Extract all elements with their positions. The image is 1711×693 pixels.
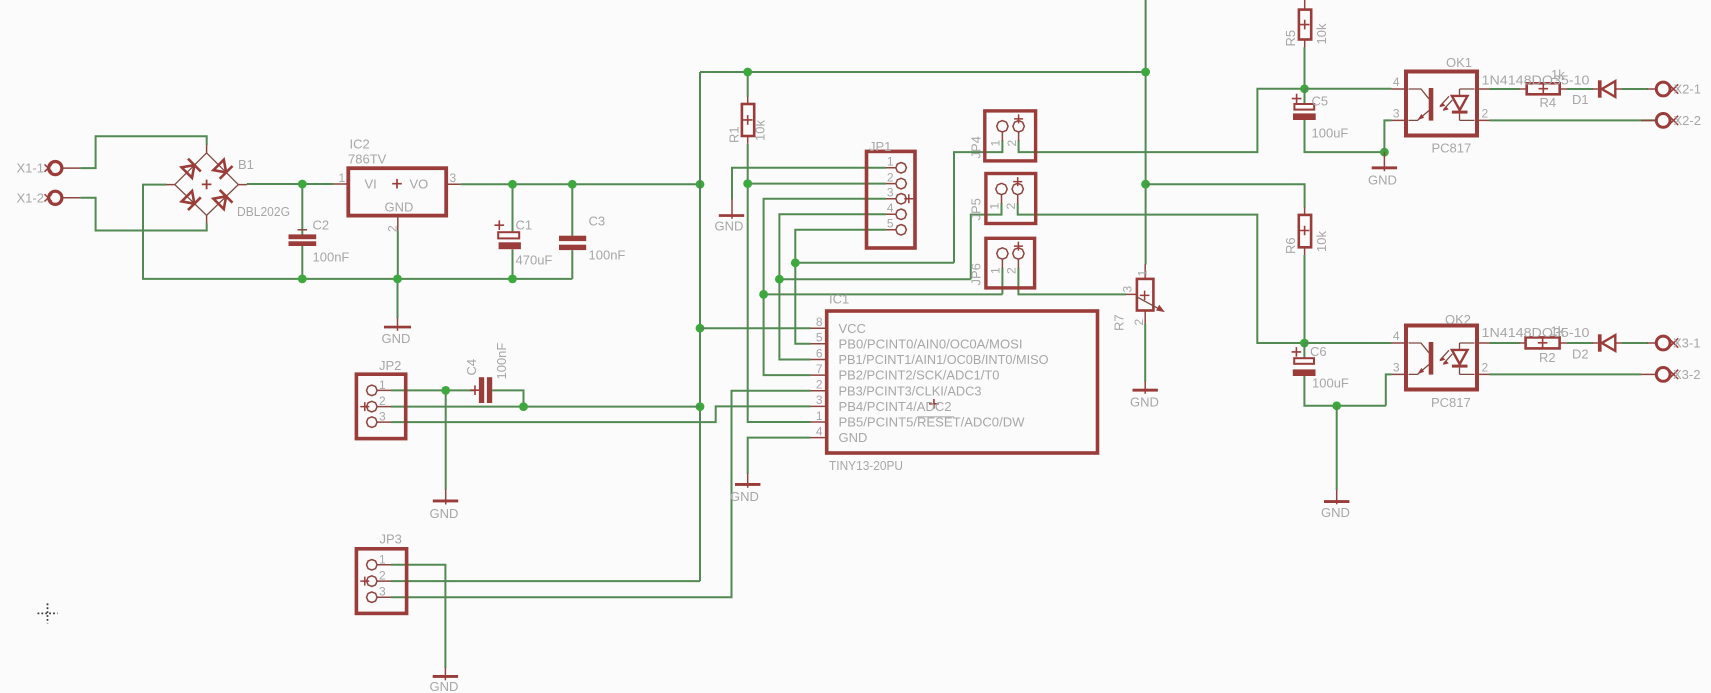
- diode B1 upper-right: [213, 160, 226, 173]
- wire IC2 GND pin down: [397, 230, 399, 279]
- wire GND net up to OK1 pin3: [1384, 120, 1391, 152]
- junction VCC at JP2 pin2: [696, 402, 705, 411]
- svg-text:X3-1: X3-1: [1673, 336, 1700, 351]
- wire JP5 pin2 to OK2 LED net: [1018, 203, 1305, 343]
- svg-text:GND: GND: [730, 489, 759, 504]
- svg-text:100nF: 100nF: [313, 250, 350, 265]
- svg-text:2: 2: [1005, 140, 1019, 147]
- optocoupler OK1: [1392, 72, 1490, 136]
- wire OK1 anode to R4: [1490, 88, 1520, 90]
- junction R6 C6 OK2: [1300, 339, 1309, 348]
- svg-text:PC817: PC817: [1431, 395, 1471, 410]
- wire VCC to R6 top: [1146, 184, 1305, 208]
- svg-text:IC2: IC2: [350, 137, 370, 152]
- ground symbol OK1: [1372, 152, 1397, 171]
- wire C6 bottom to GND net: [1304, 376, 1385, 406]
- svg-text:JP4: JP4: [969, 136, 984, 158]
- svg-text:DBL202G: DBL202G: [237, 204, 290, 219]
- sheet origin cross: [38, 603, 58, 623]
- svg-text:7: 7: [816, 362, 823, 376]
- wire JP1 pin5 to PB0 net: [795, 230, 886, 344]
- junction PB2 net: [759, 290, 768, 299]
- svg-text:1: 1: [1136, 270, 1150, 277]
- svg-text:5: 5: [816, 331, 823, 345]
- overline RESET: [917, 416, 954, 418]
- optocoupler OK2: [1392, 326, 1490, 390]
- wire R7 pin2 to GND: [1144, 324, 1146, 382]
- svg-text:PB0/PCINT0/AIN0/OC0A/MOSI: PB0/PCINT0/AIN0/OC0A/MOSI: [839, 336, 1023, 351]
- svg-text:JP3: JP3: [380, 532, 402, 547]
- junction C6 GND net: [1332, 401, 1341, 410]
- wire IC2 VO rail: [461, 183, 700, 185]
- svg-text:PB1/PCINT1/AIN1/OC0B/INT0/MISO: PB1/PCINT1/AIN1/OC0B/INT0/MISO: [839, 352, 1049, 367]
- svg-text:100nF: 100nF: [589, 248, 626, 263]
- svg-text:GND: GND: [382, 331, 411, 346]
- svg-text:2: 2: [1005, 267, 1019, 274]
- wire JP6 pin1 to PB2 net: [1001, 268, 1003, 295]
- svg-text:1N4148DO35-10: 1N4148DO35-10: [1482, 325, 1590, 340]
- wire JP3 pin3 to IC1 PB3: [391, 391, 811, 598]
- wire C4 right to VCC net: [492, 390, 523, 406]
- svg-text:TINY13-20PU: TINY13-20PU: [829, 458, 903, 473]
- svg-text:100nF: 100nF: [494, 343, 509, 380]
- svg-text:1N4148DO35-10: 1N4148DO35-10: [1482, 73, 1590, 88]
- wire X1-2 to bridge AC2: [80, 198, 206, 231]
- svg-text:4: 4: [1393, 329, 1400, 343]
- wire JP1 pin4 to PB1 net: [779, 214, 886, 359]
- wire PB0 net horizontal run: [795, 262, 954, 264]
- wire R2 to D2: [1567, 342, 1593, 344]
- svg-text:C4: C4: [464, 359, 479, 376]
- wire JP3 pin2 to VCC: [391, 580, 700, 582]
- svg-text:OK1: OK1: [1446, 55, 1472, 70]
- ground symbol R7: [1133, 381, 1158, 394]
- wire JP1 pin3 to PB2 net: [764, 199, 886, 375]
- resistor R5: [1299, 0, 1311, 48]
- svg-text:D2: D2: [1572, 347, 1589, 362]
- junction C1 bottom: [508, 275, 517, 284]
- svg-text:10k: 10k: [1314, 23, 1329, 44]
- svg-text:100uF: 100uF: [1312, 126, 1349, 141]
- svg-text:786TV: 786TV: [348, 152, 387, 167]
- junction PB0 net: [791, 258, 800, 267]
- svg-text:GND: GND: [430, 679, 459, 693]
- svg-text:VI: VI: [365, 177, 377, 192]
- junction VCC to R6 branch: [1141, 180, 1150, 189]
- wire C3 branch bottom: [571, 250, 573, 279]
- svg-text:1: 1: [988, 203, 1002, 210]
- wire R1 top: [747, 72, 749, 97]
- svg-text:GND: GND: [1321, 505, 1350, 520]
- connector X3-2: [1641, 368, 1678, 382]
- svg-text:C5: C5: [1312, 94, 1329, 109]
- capacitor C5: [1292, 89, 1316, 120]
- svg-text:2: 2: [887, 170, 894, 184]
- wire JP1 pin2: [748, 183, 886, 185]
- svg-text:C2: C2: [313, 218, 330, 233]
- ground symbol JP1: [719, 199, 744, 219]
- svg-text:2: 2: [1482, 107, 1489, 121]
- svg-text:JP6: JP6: [969, 263, 984, 285]
- svg-text:470uF: 470uF: [516, 253, 553, 268]
- capacitor C6: [1292, 343, 1316, 376]
- svg-text:X2-2: X2-2: [1674, 113, 1701, 128]
- svg-text:1: 1: [887, 155, 894, 169]
- svg-text:3: 3: [1393, 107, 1400, 121]
- svg-text:PB2/PCINT2/SCK/ADC1/T0: PB2/PCINT2/SCK/ADC1/T0: [839, 368, 1000, 383]
- svg-text:8: 8: [816, 315, 823, 329]
- svg-text:B1: B1: [238, 157, 254, 172]
- svg-text:3: 3: [379, 585, 386, 599]
- wire PB1 net horizontal run: [779, 278, 970, 280]
- wire PB2 net horizontal run: [764, 293, 1003, 295]
- wire IC1 GND pin to ground: [748, 438, 811, 474]
- svg-text:2: 2: [379, 569, 386, 583]
- junction C5 GND OK1 pin3: [1380, 148, 1389, 157]
- wire IC1 VCC pin: [700, 327, 811, 329]
- wire OK2 anode to R2: [1490, 342, 1520, 344]
- junction VCC at IC1 VCC pin: [696, 324, 705, 333]
- svg-text:GND: GND: [385, 200, 414, 215]
- connector X3-1: [1648, 336, 1679, 350]
- svg-text:R7: R7: [1112, 314, 1127, 331]
- svg-text:OK2: OK2: [1445, 312, 1471, 327]
- svg-text:1: 1: [989, 267, 1003, 274]
- ground symbol JP3: [433, 668, 458, 681]
- diode D1: [1593, 80, 1623, 97]
- wire RESET net down to IC1 PB5: [748, 184, 811, 422]
- junction R1 bottom JP1 pin2: [743, 179, 752, 188]
- wire C2 branch bottom: [301, 246, 303, 279]
- svg-text:2: 2: [816, 378, 823, 392]
- svg-text:2: 2: [1482, 361, 1489, 375]
- wire JP3 pin1 to GND: [391, 565, 445, 668]
- wire bridge plus to IC2 VI: [247, 183, 334, 185]
- svg-text:R4: R4: [1540, 95, 1557, 110]
- svg-text:R5: R5: [1283, 30, 1298, 47]
- svg-text:R1: R1: [727, 126, 742, 143]
- wire JP2 pin1 GND drop: [445, 390, 447, 490]
- wire LED net to OK2 pin4: [1304, 342, 1391, 344]
- wire R1 bottom to JP1 pin2 junction: [747, 144, 749, 184]
- svg-text:6: 6: [816, 346, 823, 360]
- svg-text:JP5: JP5: [969, 198, 984, 220]
- resistor R6: [1299, 207, 1311, 255]
- connector X2-1: [1648, 82, 1679, 96]
- svg-text:PC817: PC817: [1432, 141, 1472, 156]
- wire R6 bottom to LED net: [1304, 255, 1306, 343]
- trimmer R7: [1126, 264, 1165, 324]
- capacitor C4: [446, 377, 492, 403]
- svg-text:GND: GND: [430, 506, 459, 521]
- wire X1-1 to bridge AC1: [80, 136, 206, 168]
- svg-text:GND: GND: [715, 219, 744, 234]
- svg-text:3: 3: [816, 393, 823, 407]
- svg-text:X1-2: X1-2: [17, 190, 44, 205]
- svg-text:PB4/PCINT4/ADC2: PB4/PCINT4/ADC2: [839, 399, 952, 414]
- svg-text:C6: C6: [1310, 344, 1327, 359]
- wire bridge minus to GND rail: [143, 185, 572, 279]
- bridge rectifier B1: [166, 145, 247, 224]
- svg-text:5: 5: [887, 217, 894, 231]
- svg-text:X2-1: X2-1: [1674, 82, 1701, 97]
- svg-text:3: 3: [887, 186, 894, 200]
- svg-text:10k: 10k: [753, 120, 768, 141]
- resistor R2: [1519, 337, 1568, 348]
- wire D2 to X3-1: [1622, 342, 1648, 344]
- svg-text:X3-2: X3-2: [1673, 367, 1700, 382]
- connector X1-2: [45, 191, 81, 204]
- svg-text:VCC: VCC: [839, 321, 866, 336]
- junction C1 top: [508, 180, 517, 189]
- pin header JP3: [356, 549, 406, 614]
- svg-text:D1: D1: [1572, 92, 1589, 107]
- svg-text:1: 1: [379, 378, 386, 392]
- junction C2 top: [298, 180, 307, 189]
- resistor R1: [742, 97, 754, 144]
- wire JP1 pin1 to GND: [732, 168, 886, 200]
- pin header JP4: [985, 111, 1036, 161]
- svg-text:1: 1: [989, 140, 1003, 147]
- pin header JP6: [986, 238, 1035, 288]
- svg-text:2: 2: [379, 394, 386, 408]
- svg-text:1: 1: [379, 552, 386, 566]
- svg-text:4: 4: [887, 201, 894, 215]
- capacitor C2: [289, 230, 317, 246]
- junction R5 C5 OK1: [1300, 84, 1309, 93]
- wire OK1 pin2 to X2-2: [1490, 119, 1657, 121]
- svg-text:1: 1: [816, 409, 823, 423]
- svg-text:R2: R2: [1539, 350, 1556, 365]
- junction C4 right: [519, 402, 528, 411]
- connector X1-1: [45, 162, 81, 175]
- resistor R4: [1519, 83, 1568, 94]
- ground symbol IC1: [735, 474, 760, 488]
- junction C3 top: [568, 180, 577, 189]
- wire JP4 pin1 to PB0 net: [954, 140, 1002, 262]
- wire C5 bottom to GND net: [1305, 120, 1385, 152]
- wire JP5 pin1 to PB1 net: [971, 203, 1002, 279]
- diode B1 upper-left: [182, 165, 195, 178]
- diode B1 lower-right: [213, 196, 226, 209]
- wire JP2 pin1: [391, 389, 446, 391]
- svg-text:GND: GND: [1130, 395, 1159, 410]
- wire C2 branch top: [301, 184, 303, 235]
- pin header JP2: [356, 374, 405, 438]
- svg-text:10k: 10k: [1314, 231, 1329, 252]
- svg-text:IC1: IC1: [829, 292, 849, 307]
- svg-text:4: 4: [1393, 75, 1400, 89]
- pin header JP5: [986, 174, 1036, 224]
- capacitor C3: [559, 236, 586, 250]
- svg-text:3: 3: [1393, 361, 1400, 375]
- svg-text:3: 3: [450, 171, 457, 185]
- wire JP2 pin3 to IC1 PB4: [391, 406, 811, 422]
- wire JP4 pin2 to OK1 LED net: [1019, 89, 1305, 152]
- wire VCC top run: [700, 71, 1146, 73]
- wire VCC right vertical to R7: [1145, 0, 1147, 265]
- wire C1 branch bottom: [512, 249, 514, 279]
- svg-text:GND: GND: [839, 430, 868, 445]
- svg-text:1: 1: [339, 171, 346, 185]
- diode D2: [1593, 334, 1623, 351]
- svg-text:100uF: 100uF: [1312, 376, 1349, 391]
- junction IC2 GND rail: [393, 275, 402, 284]
- capacitor C1: [495, 220, 521, 249]
- wire D1 to X2-1: [1622, 88, 1648, 90]
- svg-text:JP1: JP1: [869, 139, 891, 154]
- wire C1 branch top: [512, 184, 514, 231]
- junction JP2 pin1 C4 GND: [441, 386, 450, 395]
- svg-text:VO: VO: [410, 177, 429, 192]
- pin header JP1: [867, 151, 916, 248]
- junction R1 top: [743, 68, 752, 77]
- svg-text:X1-1: X1-1: [17, 161, 44, 176]
- svg-text:2: 2: [1004, 203, 1018, 210]
- svg-text:2: 2: [1132, 319, 1146, 326]
- ground symbol OK2: [1324, 490, 1349, 505]
- wire R5 bottom to LED net junction: [1304, 47, 1306, 89]
- wire VCC vertical main: [699, 72, 701, 581]
- wire OK2 pin2 to X3-2: [1490, 373, 1642, 375]
- wire JP2 pin2 to VCC: [391, 406, 700, 408]
- wire R4 to D1: [1567, 88, 1593, 90]
- wire LED net to OK1 pin4: [1305, 88, 1392, 90]
- wire JP6 pin2 to R7 wiper net: [1018, 268, 1125, 295]
- voltage regulator IC2: [334, 168, 461, 230]
- svg-text:R6: R6: [1283, 237, 1298, 254]
- ground symbol JP2: [433, 490, 458, 505]
- junction VO rail end: [696, 180, 705, 189]
- wire C3 branch top: [571, 184, 573, 236]
- wire GND net up to OK2 pin3: [1386, 374, 1392, 405]
- junction C2 bottom: [298, 275, 307, 284]
- diode B1 lower-left: [182, 191, 195, 204]
- svg-text:C1: C1: [516, 218, 533, 233]
- svg-text:C3: C3: [589, 214, 606, 229]
- microcontroller IC1: [811, 311, 1098, 453]
- svg-text:3: 3: [1121, 286, 1135, 293]
- connector X2-2: [1641, 114, 1678, 128]
- svg-text:4: 4: [816, 424, 823, 438]
- ground symbol below IC2: [384, 279, 411, 331]
- junction PB1 net: [775, 275, 784, 284]
- svg-text:3: 3: [379, 410, 386, 424]
- svg-text:GND: GND: [1368, 173, 1397, 188]
- svg-text:JP2: JP2: [379, 358, 401, 373]
- junction VCC top right: [1141, 68, 1150, 77]
- wire GND drop OK2: [1336, 406, 1338, 490]
- svg-text:PB3/PCINT3/CLKI/ADC3: PB3/PCINT3/CLKI/ADC3: [839, 383, 982, 398]
